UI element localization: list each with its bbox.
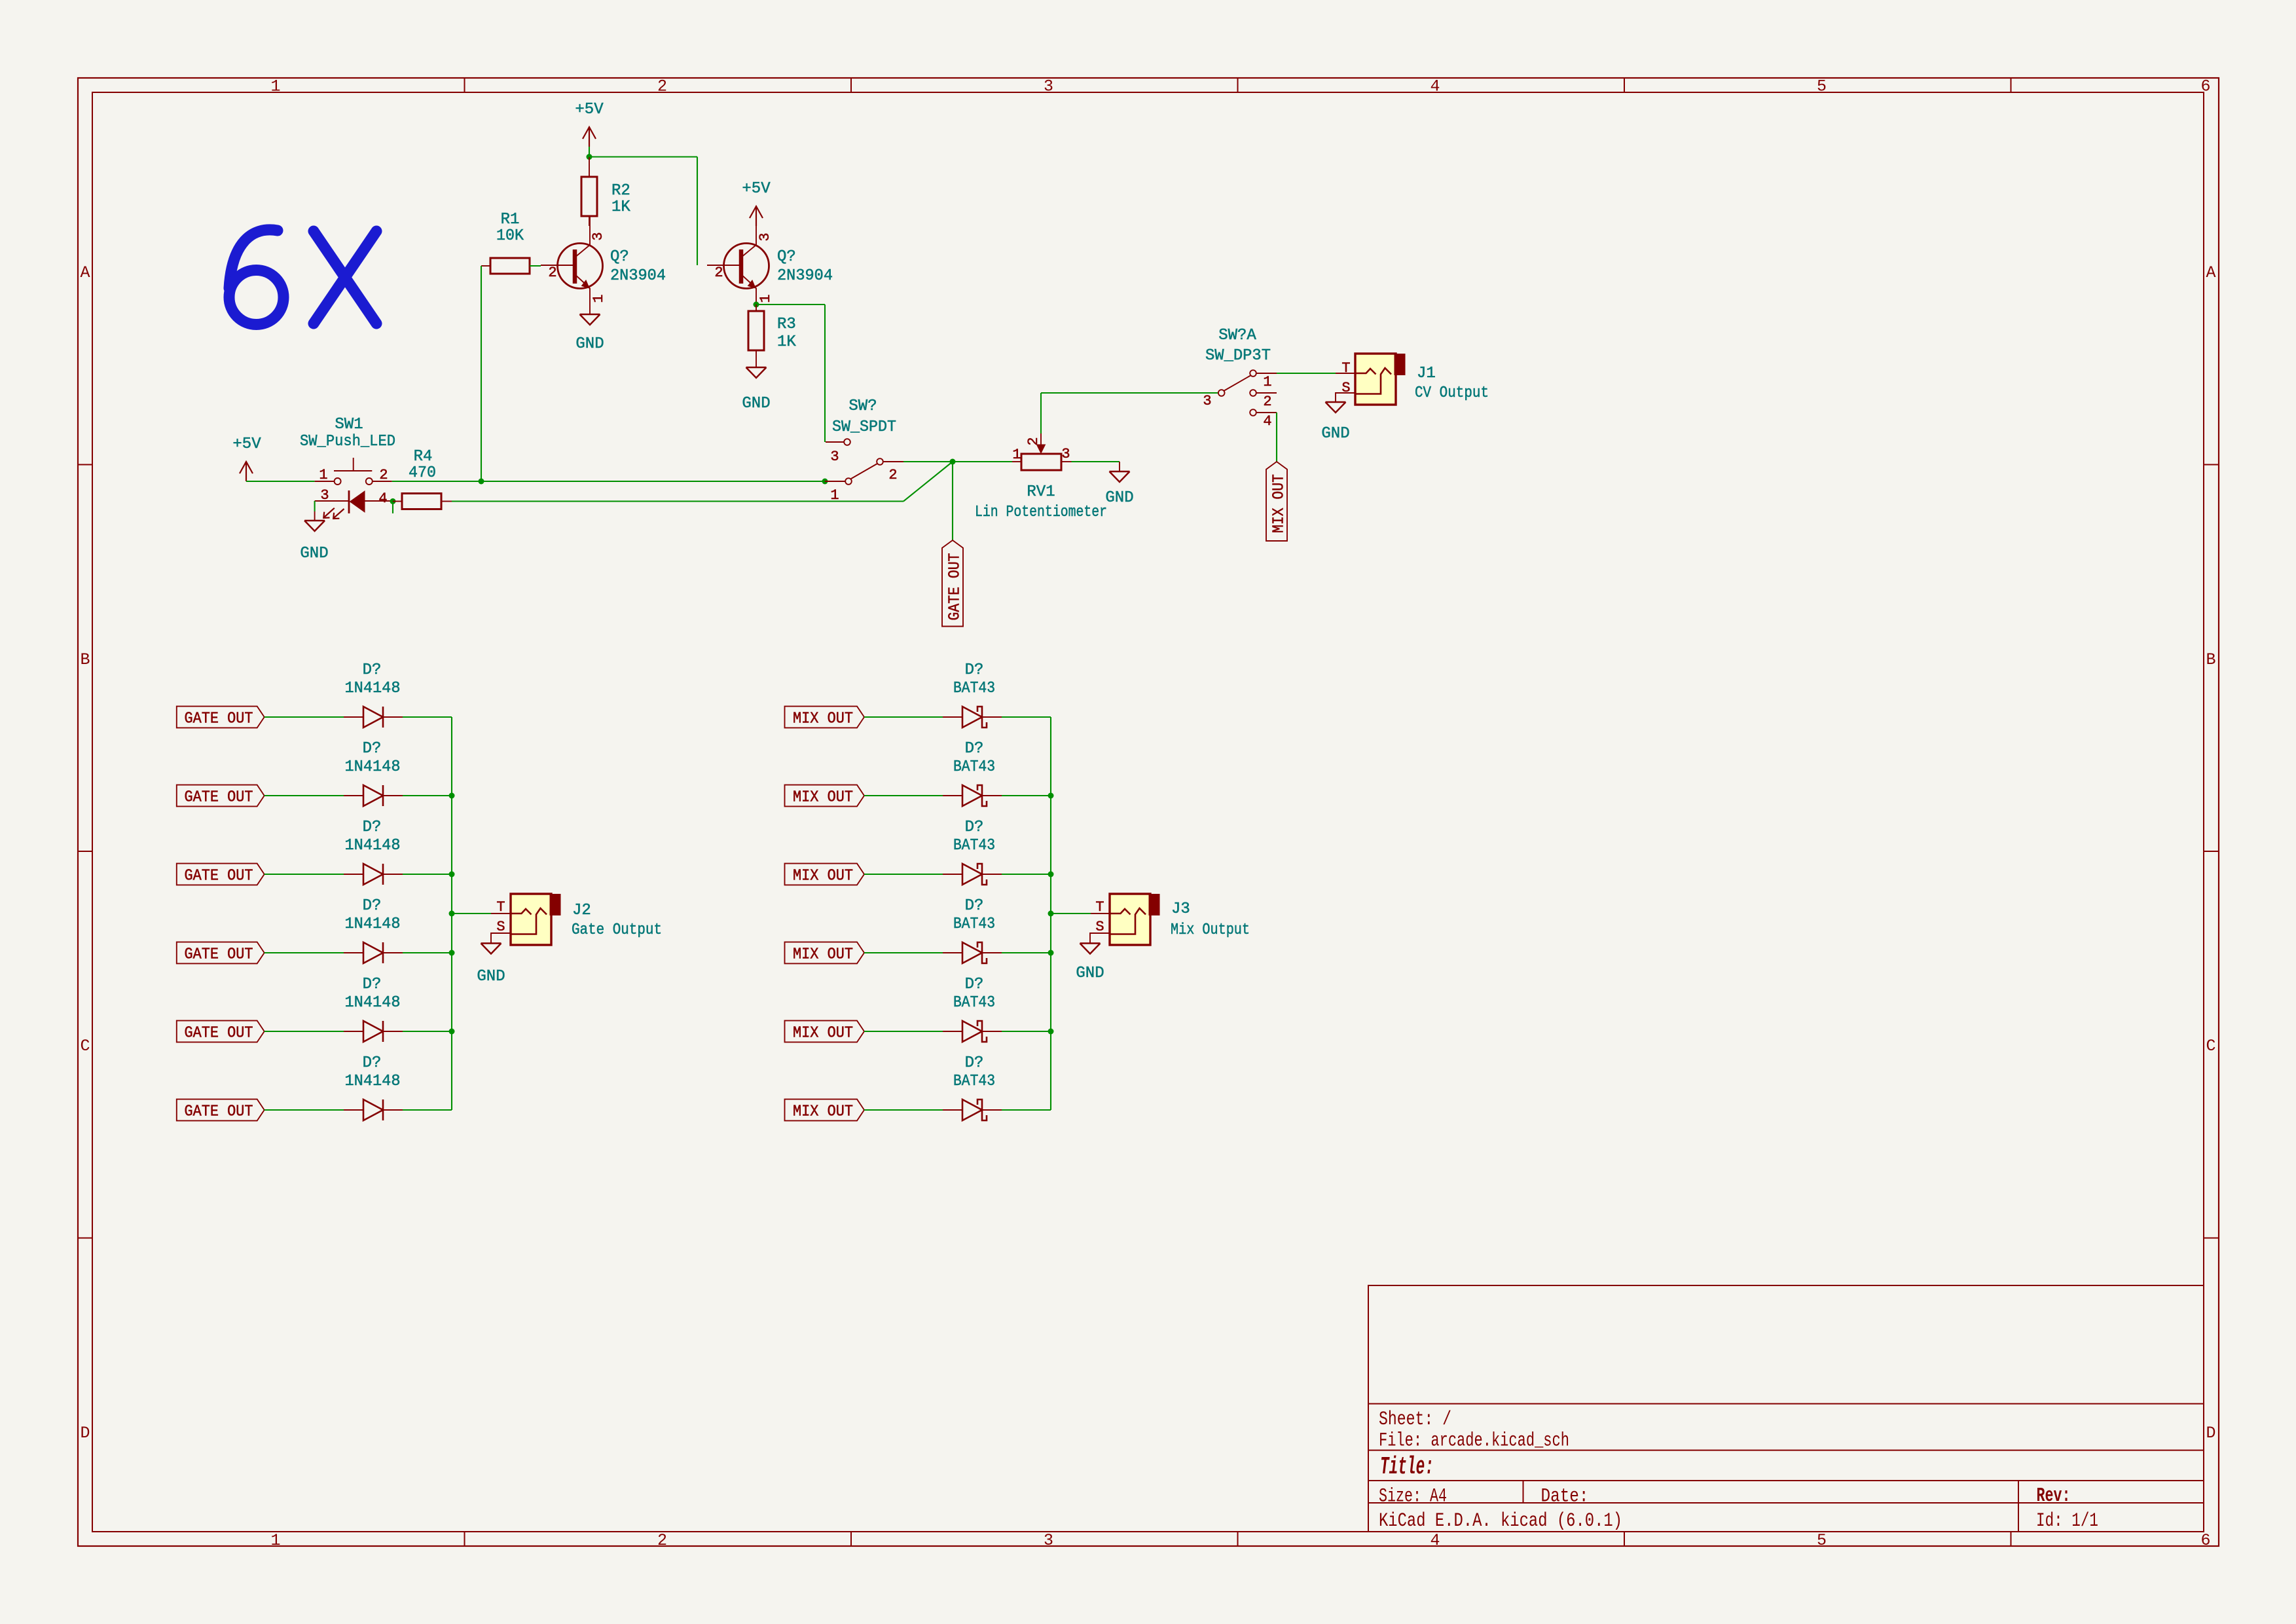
svg-text:D?: D? xyxy=(965,661,984,679)
svg-text:Size: A4: Size: A4 xyxy=(1379,1486,1447,1508)
svg-text:Q?: Q? xyxy=(610,248,629,266)
svg-text:MIX OUT: MIX OUT xyxy=(793,946,853,964)
svg-text:B: B xyxy=(80,650,90,669)
svg-text:1N4148: 1N4148 xyxy=(345,1073,401,1090)
svg-text:D?: D? xyxy=(965,740,984,758)
svg-text:3: 3 xyxy=(757,232,773,241)
svg-text:GATE OUT: GATE OUT xyxy=(185,1025,253,1043)
ground symbol below SW1 LED xyxy=(304,520,325,522)
wire junction to RV1 pin 1 xyxy=(953,461,1012,462)
svg-text:5: 5 xyxy=(1817,77,1827,96)
junction at R2 top xyxy=(587,154,592,160)
global label MIX OUT row 1 xyxy=(785,707,865,728)
svg-text:3: 3 xyxy=(320,487,329,504)
svg-text:J3: J3 xyxy=(1171,900,1190,918)
junction SW1 LED / R4 xyxy=(390,498,396,504)
switch SW?A SW_DP3T xyxy=(1218,390,1225,396)
svg-text:1N4148: 1N4148 xyxy=(345,994,401,1012)
svg-text:1: 1 xyxy=(270,1531,280,1550)
diode D? 1N4148 row 6 xyxy=(344,1109,363,1111)
svg-text:4: 4 xyxy=(1430,77,1440,96)
svg-text:GND: GND xyxy=(575,335,604,353)
svg-text:A: A xyxy=(80,263,90,282)
ground symbol at J2 xyxy=(481,942,501,944)
svg-text:Id: 1/1: Id: 1/1 xyxy=(2036,1510,2098,1532)
svg-text:D?: D? xyxy=(363,976,382,993)
svg-text:1N4148: 1N4148 xyxy=(345,680,401,697)
svg-text:D?: D? xyxy=(965,819,984,836)
ground symbol at J3 xyxy=(1080,942,1101,944)
power +5V symbol at SW1 xyxy=(246,462,247,481)
junction mix bus y=1575 xyxy=(1048,1029,1054,1035)
svg-text:SW?A: SW?A xyxy=(1218,327,1256,344)
svg-text:Q?: Q? xyxy=(777,248,796,266)
diode D? 1N4148 row 2 xyxy=(344,795,363,796)
svg-text:T: T xyxy=(1095,899,1104,915)
svg-text:10K: 10K xyxy=(496,227,524,245)
svg-text:+5V: +5V xyxy=(232,435,261,453)
connector J2 audio jack xyxy=(511,894,551,945)
global label MIX OUT row 5 xyxy=(785,1021,865,1043)
wire GATE OUT row 6 to diode xyxy=(264,1109,344,1111)
global label GATE OUT row 4 xyxy=(177,942,264,964)
svg-text:GND: GND xyxy=(477,968,505,986)
svg-text:BAT43: BAT43 xyxy=(953,680,995,697)
Q2 emitter wire xyxy=(756,288,757,304)
svg-text:A: A xyxy=(2206,263,2215,282)
svg-text:SW_DP3T: SW_DP3T xyxy=(1205,347,1271,365)
wire diode row 5 to gate bus xyxy=(403,1031,452,1032)
connector J1 audio jack xyxy=(1355,354,1396,405)
svg-text:BAT43: BAT43 xyxy=(953,837,995,855)
svg-text:1: 1 xyxy=(1012,447,1021,463)
svg-text:T: T xyxy=(1341,360,1350,377)
J2 sleeve wire to ground xyxy=(491,933,511,944)
wire SW1 LED cathode to ground xyxy=(314,501,316,511)
svg-text:GATE OUT: GATE OUT xyxy=(185,789,253,807)
svg-text:3: 3 xyxy=(590,232,606,240)
svg-text:D: D xyxy=(2206,1424,2215,1443)
svg-text:2N3904: 2N3904 xyxy=(610,267,666,285)
svg-text:R3: R3 xyxy=(777,316,796,333)
svg-text:GND: GND xyxy=(742,395,770,413)
wire diode row 2 to gate bus xyxy=(403,795,452,796)
wire SW?A pin 4 down to MIX OUT label xyxy=(1276,413,1277,462)
svg-text:B: B xyxy=(2206,650,2215,669)
svg-text:2: 2 xyxy=(1263,394,1271,410)
global label MIX OUT (vertical) xyxy=(1266,462,1287,541)
Q1 collector pin wire xyxy=(589,216,591,245)
wire gate bus to J2 tip xyxy=(452,913,491,914)
wire RV1 pin 3 to ground xyxy=(1072,461,1120,462)
wire stub below R4 junction xyxy=(392,502,393,514)
svg-text:1: 1 xyxy=(319,467,327,483)
svg-text:Sheet: /: Sheet: / xyxy=(1379,1409,1451,1431)
svg-text:1N4148: 1N4148 xyxy=(345,837,401,855)
wire +5V to SW1 pin 1 xyxy=(246,481,315,482)
svg-text:3: 3 xyxy=(1061,446,1070,462)
svg-text:D?: D? xyxy=(363,740,382,758)
svg-text:BAT43: BAT43 xyxy=(953,1073,995,1090)
wire +5V to junction xyxy=(589,147,590,157)
junction Q2 emitter / R3 xyxy=(754,302,759,308)
svg-text:SW_Push_LED: SW_Push_LED xyxy=(300,433,395,451)
svg-text:KiCad E.D.A. kicad (6.0.1): KiCad E.D.A. kicad (6.0.1) xyxy=(1379,1510,1622,1532)
junction at RV1 pin 1 net xyxy=(950,459,956,465)
diode D? BAT43 row 3 xyxy=(943,874,962,875)
wire diode row 6 to gate bus xyxy=(403,1109,452,1111)
svg-text:GATE OUT: GATE OUT xyxy=(185,868,253,885)
svg-text:2: 2 xyxy=(548,265,556,281)
svg-text:2: 2 xyxy=(657,1531,667,1550)
svg-text:1: 1 xyxy=(591,294,607,303)
wire diode row 4 to gate bus xyxy=(403,952,452,953)
wire diode row 3 to gate bus xyxy=(403,874,452,875)
wire Q2 emitter to SW SPDT pin 3 xyxy=(756,304,825,305)
svg-text:1: 1 xyxy=(270,77,280,96)
svg-text:J2: J2 xyxy=(572,902,591,919)
svg-text:C: C xyxy=(80,1037,90,1056)
svg-text:2: 2 xyxy=(888,467,897,483)
svg-text:GATE OUT: GATE OUT xyxy=(946,553,964,621)
svg-text:Mix Output: Mix Output xyxy=(1171,921,1250,939)
SW1 LED xyxy=(315,500,348,502)
svg-text:CV Output: CV Output xyxy=(1415,384,1489,402)
global label MIX OUT row 3 xyxy=(785,864,865,885)
svg-text:D?: D? xyxy=(965,1054,984,1072)
junction gate bus y=1455 xyxy=(449,950,455,956)
wire diode row 5 to mix bus xyxy=(1002,1031,1051,1032)
svg-text:2: 2 xyxy=(657,77,667,96)
global label MIX OUT row 6 xyxy=(785,1099,865,1121)
wire MIX OUT row 2 to diode xyxy=(864,795,943,796)
svg-text:SW_SPDT: SW_SPDT xyxy=(832,418,896,436)
svg-text:+5V: +5V xyxy=(575,101,604,119)
svg-text:Title:: Title: xyxy=(1380,1453,1434,1481)
svg-text:Lin Potentiometer: Lin Potentiometer xyxy=(975,504,1107,521)
wire MIX OUT row 6 to diode xyxy=(864,1109,943,1111)
svg-text:RV1: RV1 xyxy=(1027,483,1055,501)
wire MIX OUT row 5 to diode xyxy=(864,1031,943,1032)
svg-text:Date:: Date: xyxy=(1541,1486,1589,1508)
svg-text:MIX OUT: MIX OUT xyxy=(1270,474,1288,533)
junction gate bus y=1215 xyxy=(449,793,455,799)
svg-text:MIX OUT: MIX OUT xyxy=(793,1103,853,1121)
svg-text:SW1: SW1 xyxy=(335,416,363,434)
junction gate bus y=1335 xyxy=(449,872,455,877)
global label GATE OUT row 2 xyxy=(177,785,264,807)
diode D? 1N4148 row 4 xyxy=(344,952,363,953)
svg-text:MIX OUT: MIX OUT xyxy=(793,868,853,885)
transistor Q1 2N3904 xyxy=(558,244,603,289)
svg-text:R1: R1 xyxy=(501,211,520,229)
wire mix bus to J3 tip xyxy=(1051,913,1091,914)
svg-text:R2: R2 xyxy=(611,182,630,200)
svg-text:D: D xyxy=(80,1424,90,1443)
junction R1 branch on SW1 net xyxy=(479,479,484,485)
J1 sleeve wire to ground xyxy=(1336,393,1355,402)
wire GATE OUT row 3 to diode xyxy=(264,874,344,875)
svg-text:1: 1 xyxy=(830,487,839,504)
svg-text:D?: D? xyxy=(363,819,382,836)
potentiometer RV1 xyxy=(1021,454,1061,470)
svg-text:6: 6 xyxy=(2200,1531,2210,1550)
svg-text:MIX OUT: MIX OUT xyxy=(793,789,853,807)
global label GATE OUT (vertical) xyxy=(942,540,963,627)
svg-text:MIX OUT: MIX OUT xyxy=(793,1025,853,1043)
wire SW?A throw 1 to J1 tip xyxy=(1277,373,1336,374)
junction mix bus y=1215 xyxy=(1048,793,1054,799)
connector J3 audio jack xyxy=(1110,894,1150,945)
wire junction down to GATE OUT label xyxy=(952,462,953,540)
svg-text:1N4148: 1N4148 xyxy=(345,915,401,933)
svg-text:GND: GND xyxy=(1105,489,1133,507)
svg-text:BAT43: BAT43 xyxy=(953,994,995,1012)
wire SW SPDT pin 2 to RV1 pin 1 xyxy=(903,461,953,462)
svg-text:4: 4 xyxy=(378,490,387,507)
resistor R2 xyxy=(581,177,597,216)
svg-text:1K: 1K xyxy=(611,198,630,216)
junction mix bus y=1335 xyxy=(1048,872,1054,877)
diode D? BAT43 row 5 xyxy=(943,1031,962,1032)
title block xyxy=(1368,1285,2204,1532)
global label MIX OUT row 2 xyxy=(785,785,865,807)
diode D? BAT43 row 2 xyxy=(943,795,962,796)
svg-text:4: 4 xyxy=(1263,413,1271,430)
svg-text:GND: GND xyxy=(1321,425,1349,443)
svg-text:BAT43: BAT43 xyxy=(953,758,995,776)
wire MIX OUT row 1 to diode xyxy=(864,716,943,718)
wire GATE OUT row 5 to diode xyxy=(264,1031,344,1032)
svg-text:J1: J1 xyxy=(1417,365,1436,382)
svg-text:2: 2 xyxy=(714,265,723,281)
switch SW? SW_SPDT xyxy=(826,441,844,443)
wire R1 to SW1 net xyxy=(481,266,482,481)
svg-text:Gate Output: Gate Output xyxy=(572,921,662,939)
wire R4 to RV1 junction xyxy=(452,500,903,502)
transistor Q2 2N3904 xyxy=(724,244,769,289)
global label GATE OUT row 1 xyxy=(177,707,264,728)
svg-text:D?: D? xyxy=(363,897,382,915)
wire diode row 1 to gate bus xyxy=(403,716,452,718)
ground symbol at RV1 pin 3 xyxy=(1110,471,1130,473)
diode D? BAT43 row 6 xyxy=(943,1109,962,1111)
svg-text:MIX OUT: MIX OUT xyxy=(793,710,853,728)
global label MIX OUT row 4 xyxy=(785,942,865,964)
svg-text:5: 5 xyxy=(1817,1531,1827,1550)
wire GATE OUT row 1 to diode xyxy=(264,716,344,718)
svg-text:3: 3 xyxy=(1203,393,1211,409)
global label GATE OUT row 5 xyxy=(177,1021,264,1043)
resistor R1 xyxy=(490,258,530,274)
svg-text:2N3904: 2N3904 xyxy=(777,267,833,285)
ground symbol below Q1 xyxy=(580,314,600,316)
wire RV1 pin 2 to SW DP3T common xyxy=(1040,393,1042,434)
junction mix bus at J3 tap xyxy=(1048,911,1054,917)
wire diode row 1 to mix bus xyxy=(1002,716,1051,718)
svg-text:BAT43: BAT43 xyxy=(953,915,995,933)
wire SW1 pin 2 to SW SPDT pin 1 xyxy=(392,481,825,482)
svg-text:GATE OUT: GATE OUT xyxy=(185,946,253,964)
svg-text:S: S xyxy=(1341,380,1350,396)
switch SW1 SW_Push_LED xyxy=(315,481,335,482)
svg-text:3: 3 xyxy=(1044,77,1053,96)
diode D? 1N4148 row 3 xyxy=(344,874,363,875)
J3 sleeve wire to ground xyxy=(1090,933,1110,944)
global label GATE OUT row 6 xyxy=(177,1099,264,1121)
wire diode row 4 to mix bus xyxy=(1002,952,1051,953)
diode D? 1N4148 row 5 xyxy=(344,1031,363,1032)
Q2 collector pin wire xyxy=(756,226,757,245)
svg-text:GATE OUT: GATE OUT xyxy=(185,710,253,728)
resistor R3 xyxy=(748,311,764,350)
svg-text:6: 6 xyxy=(2200,77,2210,96)
wire GATE OUT row 2 to diode xyxy=(264,795,344,796)
junction gate bus y=1575 xyxy=(449,1029,455,1035)
ground symbol below R3 xyxy=(746,367,767,369)
svg-text:+5V: +5V xyxy=(742,180,771,198)
wire diode row 6 to mix bus xyxy=(1002,1109,1051,1111)
svg-text:2: 2 xyxy=(1025,437,1042,445)
wire diode row 3 to mix bus xyxy=(1002,874,1051,875)
diode D? 1N4148 row 1 xyxy=(344,716,363,718)
diode D? BAT43 row 1 xyxy=(943,716,962,718)
svg-text:3: 3 xyxy=(1044,1531,1053,1550)
svg-text:T: T xyxy=(496,899,505,915)
power +5V symbol above Q2 xyxy=(756,206,757,226)
svg-text:2: 2 xyxy=(379,467,388,483)
wire MIX OUT row 4 to diode xyxy=(864,952,943,953)
svg-text:C: C xyxy=(2206,1037,2215,1056)
svg-text:D?: D? xyxy=(965,976,984,993)
svg-text:D?: D? xyxy=(363,1054,382,1072)
resistor R4 xyxy=(402,494,441,509)
svg-text:1: 1 xyxy=(1263,374,1271,390)
Q1 emitter wire to ground xyxy=(589,288,591,314)
svg-text:File: arcade.kicad_sch: File: arcade.kicad_sch xyxy=(1379,1430,1569,1452)
svg-text:SW?: SW? xyxy=(848,397,877,415)
global label GATE OUT row 3 xyxy=(177,864,264,885)
junction gate bus at J2 tap xyxy=(449,911,455,917)
junction mix bus y=1455 xyxy=(1048,950,1054,956)
svg-text:1K: 1K xyxy=(777,333,796,351)
wire MIX OUT row 3 to diode xyxy=(864,874,943,875)
svg-text:D?: D? xyxy=(965,897,984,915)
diode D? BAT43 row 4 xyxy=(943,952,962,953)
svg-text:1: 1 xyxy=(757,294,774,303)
wire GATE OUT row 4 to diode xyxy=(264,952,344,953)
svg-text:GATE OUT: GATE OUT xyxy=(185,1103,253,1121)
annotation 6X xyxy=(229,230,376,325)
svg-text:1N4148: 1N4148 xyxy=(345,758,401,776)
svg-text:470: 470 xyxy=(409,464,436,482)
svg-text:4: 4 xyxy=(1430,1531,1440,1550)
ground symbol at J1 xyxy=(1326,401,1346,403)
svg-text:3: 3 xyxy=(830,449,839,465)
wire diode row 2 to mix bus xyxy=(1002,795,1051,796)
svg-text:R4: R4 xyxy=(414,448,433,466)
svg-text:GND: GND xyxy=(1076,965,1104,982)
gate output bus wire xyxy=(451,717,452,1110)
power +5V symbol above R2 xyxy=(589,127,590,147)
svg-text:GND: GND xyxy=(300,545,328,563)
svg-text:Rev:: Rev: xyxy=(2037,1485,2071,1507)
mix output bus wire xyxy=(1050,717,1051,1110)
svg-text:D?: D? xyxy=(363,661,382,679)
wire R2 top to Q2 base (net) xyxy=(589,156,697,157)
junction at SW SPDT pin 1 xyxy=(822,479,828,485)
